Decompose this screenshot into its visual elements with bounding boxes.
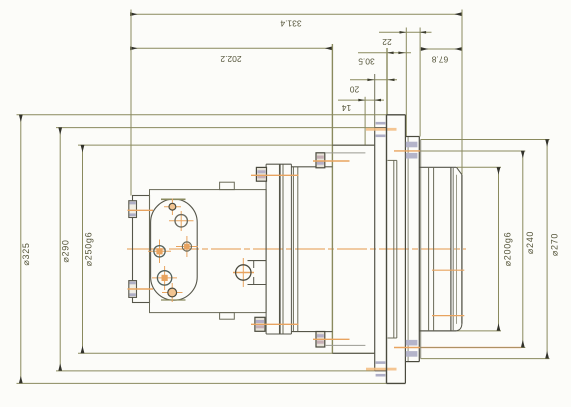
dimension dia325	[17, 115, 387, 384]
svg-text:⌀270: ⌀270	[550, 233, 560, 256]
capsule bottom flat	[161, 299, 186, 301]
dimension 22 line	[379, 31, 432, 47]
svg-text:14: 14	[342, 103, 352, 113]
main horizontal centerline axis	[127, 248, 466, 250]
dimension dia290	[56, 128, 375, 371]
strip bolt bottom-right	[313, 332, 350, 348]
left bolt top	[128, 201, 154, 218]
adapter rings block	[266, 164, 332, 334]
extension line x387	[386, 48, 388, 115]
plate2 bolt top	[394, 142, 420, 159]
dimension 30.5 line	[358, 52, 411, 67]
svg-text:⌀325: ⌀325	[21, 242, 31, 265]
extension line x405.7	[405, 28, 407, 137]
motor block	[150, 190, 267, 313]
plate2 bolt bottom	[394, 340, 521, 357]
dimension 67.8 line	[421, 49, 462, 65]
extension line x419.8	[419, 28, 421, 137]
dimension dia240	[419, 151, 535, 348]
flange disc	[387, 115, 406, 384]
flange bolt bottom band	[366, 361, 397, 376]
extension line x365	[364, 97, 366, 145]
dimension dia270	[421, 140, 560, 359]
dimension 14 line	[338, 99, 384, 113]
pickup tube circle	[233, 258, 254, 287]
drum hub	[420, 140, 462, 359]
svg-text:30.5: 30.5	[358, 57, 375, 67]
svg-text:⌀200g6: ⌀200g6	[503, 232, 513, 267]
hole A	[164, 199, 181, 216]
svg-text:22: 22	[382, 37, 392, 47]
pickup tube body	[248, 261, 267, 285]
left bolt bottom	[128, 281, 154, 298]
dimension 202.2 line	[130, 48, 332, 64]
boss bottom	[220, 313, 235, 320]
hole C	[148, 240, 171, 264]
dimension 331.4 line	[130, 14, 462, 28]
dimension 20 line	[350, 79, 397, 95]
flange bolt top band	[366, 122, 397, 137]
strip bolt top-right	[313, 153, 350, 168]
capsule cover plate	[151, 199, 198, 300]
svg-text:202.2: 202.2	[220, 54, 242, 64]
boss top	[220, 182, 235, 189]
svg-text:⌀290: ⌀290	[61, 239, 71, 262]
dimension dia200g6	[457, 167, 513, 331]
hole F	[152, 266, 177, 290]
spigot housing top edge	[325, 145, 375, 353]
strip bolt bottom-left	[251, 317, 299, 331]
mount plate2	[405, 137, 419, 362]
dimension dia250g6	[78, 145, 375, 353]
strip bolt top-left	[251, 167, 299, 181]
svg-text:20: 20	[350, 85, 360, 95]
extension line x374	[374, 74, 376, 128]
ring B face	[375, 128, 387, 371]
drum inner orange line lower	[432, 315, 464, 317]
svg-text:67.8: 67.8	[431, 55, 448, 65]
svg-text:⌀250g6: ⌀250g6	[84, 232, 94, 267]
drum inner orange line upper	[432, 269, 464, 271]
capsule top flat	[161, 198, 186, 200]
motor rear plate	[133, 196, 150, 303]
extension line x461.7 right overall	[461, 10, 463, 175]
svg-text:⌀240: ⌀240	[525, 231, 535, 254]
hole B	[169, 211, 194, 231]
svg-text:331.4: 331.4	[280, 19, 302, 29]
hole D	[176, 236, 198, 257]
extension line x332	[331, 44, 333, 353]
extension line left overall	[130, 10, 132, 196]
hole G	[162, 283, 183, 302]
